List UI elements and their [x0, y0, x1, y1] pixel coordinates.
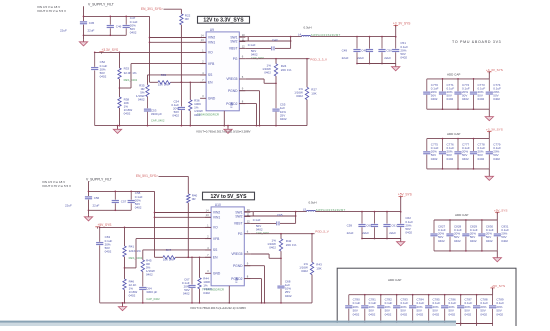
capacitor C782 0.1uF	[377, 295, 392, 326]
capacitor C55 1uF	[272, 83, 287, 125]
wire PGND	[244, 266, 264, 303]
svg-text:V_SUPPLY_FILT: V_SUPPLY_FILT	[86, 177, 112, 181]
svg-text:0.5uH: 0.5uH	[309, 200, 317, 204]
svg-text:GND: GND	[213, 272, 221, 276]
svg-text:3300 pF: 3300 pF	[151, 112, 162, 116]
wire bank top rail	[427, 138, 490, 140]
net +5V_SYS	[398, 193, 412, 213]
capacitor C789 0.1uF	[489, 295, 504, 326]
wire bank4 bottom rail	[349, 323, 493, 325]
wire EN pulldown	[181, 25, 183, 83]
svg-text:12V to 3.3V_SYS: 12V to 3.3V_SYS	[203, 18, 244, 24]
net EN_3V1_SYS	[141, 7, 181, 14]
svg-text:0402: 0402	[301, 269, 308, 273]
inductor L5	[303, 200, 346, 212]
svg-text:15K DNP: 15K DNP	[158, 83, 170, 87]
svg-text:C56: C56	[94, 196, 100, 200]
capacitor C62 0.1uF	[397, 212, 413, 239]
ground rail	[100, 302, 312, 304]
svg-text:L4: L4	[298, 33, 302, 37]
capacitor C43 bootstrap	[245, 37, 290, 51]
capacitor C53	[144, 97, 165, 126]
svg-text:SW1: SW1	[230, 35, 237, 39]
svg-text:V_SUPPLY_FILT: V_SUPPLY_FILT	[88, 2, 114, 6]
capacitor C61 22uF	[383, 212, 397, 240]
svg-text:0402: 0402	[135, 205, 142, 209]
svg-text:22uF: 22uF	[362, 231, 369, 235]
svg-text:C46: C46	[116, 25, 122, 29]
wire VFB	[125, 239, 212, 268]
capacitor C777 0.1uF	[454, 139, 469, 169]
svg-text:0402: 0402	[194, 113, 201, 117]
svg-text:L5: L5	[303, 208, 307, 212]
wire PGND	[239, 91, 259, 126]
svg-text:VIN2: VIN2	[208, 36, 215, 40]
svg-text:EN_5V1_SYS>: EN_5V1_SYS>	[136, 174, 158, 178]
wire VOUT rail	[290, 36, 396, 42]
wire bank bottom rail	[427, 168, 490, 170]
capacitor C829 0.1uF	[462, 220, 477, 251]
resistor R38	[118, 97, 133, 126]
capacitor C781 0.1uF	[361, 295, 376, 326]
svg-text:0402: 0402	[172, 114, 179, 118]
capacitor C49 22uF	[342, 37, 361, 65]
capacitor C786 0.1uF	[441, 295, 456, 326]
svg-text:0402: 0402	[405, 230, 412, 234]
svg-text:C65: C65	[277, 213, 283, 217]
label bootstrap values	[248, 43, 265, 60]
capacitor C48 22uF	[357, 37, 373, 65]
svg-text:PGD_5_V: PGD_5_V	[315, 230, 329, 234]
svg-text:R41: R41	[129, 244, 135, 248]
svg-text:+5V_SYS: +5V_SYS	[492, 284, 506, 288]
ground bank	[493, 251, 501, 262]
title box	[203, 192, 255, 200]
wire SS	[148, 75, 207, 85]
svg-text:PGD_3_3_V: PGD_3_3_V	[310, 57, 327, 61]
svg-text:SW2: SW2	[230, 40, 237, 44]
net +5V_SYS	[95, 223, 211, 228]
title box	[198, 16, 250, 23]
wire SS	[143, 250, 211, 260]
svg-text:SW2: SW2	[235, 215, 242, 219]
wire VIN2	[154, 212, 211, 214]
svg-text:C48: C48	[361, 49, 367, 53]
svg-text:VOUT=0.765x0.3017x(1+32.0/10)=: VOUT=0.765x0.3017x(1+32.0/10)=3.288V	[196, 129, 250, 133]
svg-text:0402: 0402	[493, 97, 500, 101]
svg-text:C61: C61	[391, 224, 397, 228]
svg-text:0.1uF: 0.1uF	[253, 218, 261, 222]
wire SW	[244, 212, 306, 216]
resistor R46	[123, 279, 138, 303]
svg-text:121K 1%: 121K 1%	[129, 249, 142, 253]
svg-text:R47: R47	[166, 248, 172, 252]
svg-text:22uF: 22uF	[60, 29, 67, 33]
ground rail	[95, 125, 307, 127]
note ADD CAP bank4	[388, 278, 401, 282]
svg-text:EN_3V1_SYS>: EN_3V1_SYS>	[141, 7, 163, 11]
svg-text:0402: 0402	[433, 312, 440, 316]
resistor R44 100K	[198, 257, 212, 303]
net PGD_5_V	[250, 230, 328, 235]
wire GND pin	[228, 286, 230, 304]
svg-text:14: 14	[206, 208, 209, 212]
svg-text:SW1: SW1	[235, 210, 242, 214]
wire VIN1	[149, 41, 206, 43]
capacitor C58 0.1uF	[128, 191, 143, 211]
window edge bar	[0, 321, 456, 326]
svg-text:0402: 0402	[264, 71, 271, 75]
capacitor C52 0.1uF	[91, 52, 107, 125]
note ADD CAP	[447, 72, 460, 76]
svg-text:0402: 0402	[496, 312, 503, 316]
svg-text:0402: 0402	[251, 53, 258, 57]
op-amp regulator U9	[200, 28, 245, 111]
resistor R35 0R	[136, 83, 149, 101]
capacitor C56 22uF	[65, 196, 100, 208]
svg-text:22uF: 22uF	[342, 56, 349, 60]
svg-text:TO PMU &BOARD 3V3: TO PMU &BOARD 3V3	[452, 40, 501, 44]
capacitor C60 22uF	[362, 212, 378, 240]
ground output	[392, 64, 400, 71]
svg-text:32.0K 1%: 32.0K 1%	[124, 71, 137, 75]
capacitor C783 0.1uF	[393, 295, 408, 326]
capacitor C47 0.1uF	[123, 16, 138, 36]
svg-text:U10: U10	[215, 203, 221, 207]
svg-text:ADD CAP: ADD CAP	[388, 278, 401, 282]
wire VREG5	[245, 79, 277, 84]
net +3_3V_SYS	[486, 68, 503, 79]
wire bank top rail	[434, 219, 497, 221]
resistor R33	[118, 52, 138, 82]
svg-text:VBST: VBST	[234, 222, 243, 226]
svg-text:0402: 0402	[269, 246, 276, 250]
svg-text:0402: 0402	[462, 97, 469, 101]
capacitor C784 0.1uF	[409, 295, 424, 326]
svg-text:0402: 0402	[431, 97, 438, 101]
svg-text:0402: 0402	[478, 97, 485, 101]
svg-text:0402: 0402	[203, 291, 210, 295]
net PGD_3_3_V	[245, 57, 327, 61]
net V_SUPPLY_FILT	[86, 177, 155, 214]
svg-text:22uF: 22uF	[347, 231, 354, 235]
svg-text:0402: 0402	[385, 312, 392, 316]
svg-text:VREG5: VREG5	[231, 252, 242, 256]
svg-text:0402: 0402	[369, 312, 376, 316]
svg-text:+3_3V_SYS: +3_3V_SYS	[486, 68, 503, 72]
svg-text:10K DNP: 10K DNP	[163, 258, 175, 262]
capacitor C828 0.1uF	[446, 220, 461, 251]
capacitor C778 0.1uF	[470, 139, 485, 169]
wire bank top rail	[427, 78, 490, 80]
wire VIN1	[154, 216, 211, 218]
svg-text:0402: 0402	[138, 98, 145, 102]
svg-text:PG: PG	[233, 57, 238, 61]
capacitor C827 0.1uF	[430, 220, 445, 251]
svg-text:VOUT=0.765x0.3017x(1+121/22.1): VOUT=0.765x0.3017x(1+121/22.1)=4.995V	[190, 306, 246, 310]
svg-text:0402: 0402	[447, 97, 454, 101]
part number TPS40305DRCR	[202, 287, 224, 291]
svg-text:VIN1: VIN1	[208, 41, 215, 45]
wire bank4 top rail	[349, 294, 493, 296]
note ADD CAP	[447, 132, 460, 136]
resistor R40 0R	[187, 193, 198, 202]
svg-text:0402: 0402	[296, 94, 303, 98]
ground mid	[224, 125, 232, 134]
svg-text:12: 12	[242, 44, 245, 48]
svg-text:22uF: 22uF	[65, 204, 72, 208]
svg-text:C59: C59	[347, 224, 353, 228]
svg-text:VO: VO	[208, 51, 213, 55]
capacitor C772 0.1uF	[454, 79, 469, 109]
svg-text:R39: R39	[161, 73, 167, 77]
capacitor C771 0.1uF	[439, 79, 454, 109]
wire input rail down	[89, 191, 155, 257]
wire SW	[239, 37, 301, 41]
net +5V_SYS	[494, 208, 508, 220]
note input voltage range	[42, 180, 71, 188]
svg-text:20K 1%: 20K 1%	[286, 243, 297, 247]
note vout formula	[196, 129, 250, 133]
svg-text:0402: 0402	[486, 239, 493, 243]
svg-text:22uF: 22uF	[357, 56, 364, 60]
op-amp regulator U10	[205, 203, 250, 286]
inductor L4	[298, 25, 341, 37]
wire EN	[150, 81, 207, 83]
resistor R42 20K	[267, 234, 296, 259]
capacitor C59 22uF	[347, 212, 366, 240]
svg-text:VBST: VBST	[229, 47, 238, 51]
svg-text:VIN2: VIN2	[213, 211, 220, 215]
ground bank	[485, 169, 493, 181]
capacitor C776 0.1uF	[439, 139, 454, 169]
svg-text:0402: 0402	[462, 157, 469, 161]
net V_SUPPLY_FILT	[83, 2, 150, 39]
svg-text:VIN1: VIN1	[213, 216, 220, 220]
note input voltage range	[37, 5, 66, 13]
label bootstrap values	[253, 218, 270, 235]
svg-text:CAP_0402: CAP_0402	[146, 297, 160, 301]
svg-text:GND: GND	[208, 97, 216, 101]
ground left	[118, 302, 126, 311]
svg-text:ADD CAP: ADD CAP	[447, 132, 460, 136]
svg-text:VOUT 0.76 V to 5.5 V: VOUT 0.76 V to 5.5 V	[42, 184, 71, 188]
capacitor C773 0.1uF	[470, 79, 485, 109]
capacitor C780 0.1uF	[345, 295, 360, 326]
svg-text:0402: 0402	[130, 30, 137, 34]
svg-text:CAP_0402: CAP_0402	[251, 56, 265, 60]
svg-text:0.3uH: 0.3uH	[304, 25, 312, 29]
resistor R43 10K	[299, 234, 322, 303]
wire feedback mid	[119, 79, 121, 97]
ground input	[79, 39, 87, 46]
svg-text:CAP_0402: CAP_0402	[256, 231, 270, 235]
wire bank bottom rail	[434, 250, 497, 252]
svg-text:ADD CAP: ADD CAP	[447, 72, 460, 76]
svg-text:0.1uF: 0.1uF	[248, 43, 256, 47]
resistor R27 10K	[294, 59, 317, 126]
wire VOUT rail	[295, 211, 401, 217]
resistor R22 0R	[180, 14, 191, 25]
resistor R41	[123, 227, 143, 260]
capacitor C54 0.1uF	[171, 82, 185, 125]
wire EN	[155, 256, 212, 258]
wire EN pulldown	[187, 203, 189, 258]
wire GND pin	[223, 111, 225, 127]
svg-text:22uF: 22uF	[384, 56, 391, 60]
svg-text:C45: C45	[89, 21, 95, 25]
box ADD CAP bank	[337, 268, 516, 331]
capacitor C46 22uF	[107, 16, 122, 37]
svg-text:0402: 0402	[480, 312, 487, 316]
svg-text:C50: C50	[386, 49, 392, 53]
svg-text:0402: 0402	[454, 239, 461, 243]
resistor R39 DNP	[158, 73, 171, 86]
wire PGND2	[244, 279, 261, 303]
wire output ground rail	[357, 63, 396, 65]
svg-text:0402: 0402	[146, 273, 153, 277]
note TO PMU	[452, 40, 501, 44]
svg-text:FSW: FSW	[235, 277, 239, 283]
resistor R47 DNP	[163, 248, 176, 261]
svg-text:0402: 0402	[285, 294, 292, 298]
svg-text:12: 12	[247, 219, 250, 223]
wire VFB	[120, 64, 207, 88]
svg-text:0402: 0402	[478, 157, 485, 161]
svg-text:PGND: PGND	[228, 89, 238, 93]
wire VIN2	[149, 37, 206, 39]
svg-text:0402: 0402	[447, 157, 454, 161]
capacitor C67 0.1uF	[182, 257, 196, 303]
svg-text:+3_3V_SYS: +3_3V_SYS	[486, 128, 503, 132]
svg-text:ADD CAP: ADD CAP	[455, 213, 468, 217]
capacitor C775 0.1uF	[423, 139, 438, 169]
svg-text:0402: 0402	[400, 55, 407, 59]
svg-text:13: 13	[206, 213, 209, 217]
ground left	[113, 125, 121, 134]
capacitor C65 bootstrap	[250, 212, 295, 226]
svg-text:0402: 0402	[449, 312, 456, 316]
capacitor C50 22uF	[378, 37, 392, 65]
capacitor C788 0.1uF	[473, 295, 488, 326]
note ADD CAP	[455, 213, 468, 217]
net +5V_SYS bank4	[490, 284, 505, 295]
svg-text:3300 pF: 3300 pF	[146, 290, 157, 294]
part number TPS40305DRCR	[197, 112, 219, 116]
svg-text:0402: 0402	[280, 117, 287, 121]
svg-text:C49: C49	[342, 49, 348, 53]
capacitor C63 0.1uF	[96, 227, 112, 303]
svg-text:VOUT 0.76 V to 5.5 V: VOUT 0.76 V to 5.5 V	[37, 9, 66, 13]
wire VREG5	[250, 254, 282, 259]
note vout formula	[190, 306, 246, 310]
ground bank	[485, 109, 493, 121]
svg-text:+5V_SYS: +5V_SYS	[398, 193, 412, 197]
svg-text:CAP_0402: CAP_0402	[151, 119, 165, 123]
svg-text:U9: U9	[210, 28, 214, 32]
svg-text:C60: C60	[366, 224, 372, 228]
svg-text:0402: 0402	[256, 228, 263, 232]
svg-text:0402: 0402	[431, 157, 438, 161]
svg-text:R33: R33	[124, 66, 130, 70]
svg-text:0402: 0402	[183, 292, 190, 296]
svg-text:0402: 0402	[417, 312, 424, 316]
svg-text:0402: 0402	[129, 294, 136, 298]
svg-text:VFB: VFB	[213, 237, 220, 241]
capacitor C770 0.1uF	[423, 79, 438, 109]
svg-text:0402: 0402	[100, 74, 107, 78]
svg-text:0402: 0402	[401, 312, 408, 316]
svg-text:0402: 0402	[105, 249, 112, 253]
resistor R45 0R	[141, 258, 155, 276]
net +3_3V_SYS	[393, 21, 410, 37]
svg-text:EN: EN	[208, 81, 213, 85]
svg-text:22uF: 22uF	[93, 204, 100, 208]
svg-text:22uF: 22uF	[389, 231, 396, 235]
capacitor C45 22uF	[60, 21, 95, 33]
capacitor C68 1uF	[277, 258, 292, 303]
capacitor C831 0.1uF	[494, 220, 509, 251]
capacitor C785 0.1uF	[425, 295, 440, 326]
svg-text:0402: 0402	[470, 239, 477, 243]
svg-text:10K: 10K	[316, 267, 321, 271]
resistor R36 100K	[189, 82, 203, 125]
svg-text:C43: C43	[272, 38, 278, 42]
svg-text:0402: 0402	[124, 112, 131, 116]
svg-text:C57: C57	[121, 200, 127, 204]
capacitor C830 0.1uF	[478, 220, 493, 251]
svg-text:20K 1%: 20K 1%	[281, 68, 292, 72]
svg-text:PG: PG	[238, 232, 243, 236]
svg-text:PGND: PGND	[233, 264, 243, 268]
svg-text:0402: 0402	[493, 157, 500, 161]
svg-text:13: 13	[201, 38, 204, 42]
svg-text:VREG5: VREG5	[226, 77, 237, 81]
svg-text:+5V_SYS: +5V_SYS	[494, 208, 508, 212]
wire output ground rail	[362, 238, 401, 240]
net +3.3V_SYS	[94, 48, 206, 53]
capacitor C787 0.1uF	[457, 295, 472, 326]
svg-text:10K: 10K	[311, 92, 316, 96]
svg-text:0402: 0402	[438, 239, 445, 243]
capacitor C774 0.1uF	[486, 79, 501, 109]
wire feedback mid	[124, 257, 126, 279]
svg-text:FSW: FSW	[230, 102, 234, 108]
svg-text:0402: 0402	[501, 239, 508, 243]
wire bank bottom rail	[427, 108, 490, 110]
svg-text:VO: VO	[213, 226, 218, 230]
svg-text:0402: 0402	[353, 312, 360, 316]
svg-text:0402: 0402	[465, 312, 472, 316]
svg-text:+3.3V_SYS: +3.3V_SYS	[102, 48, 119, 52]
net +3_3V_SYS	[486, 128, 503, 139]
resistor R24 20K	[262, 59, 291, 84]
svg-text:12V to 5V_SYS: 12V to 5V_SYS	[211, 194, 248, 200]
svg-text:+3_3V_SYS: +3_3V_SYS	[393, 21, 410, 25]
ground output	[397, 239, 405, 246]
svg-text:VFB: VFB	[208, 62, 215, 66]
svg-text:22uF: 22uF	[88, 29, 95, 33]
svg-text:EN: EN	[213, 256, 218, 260]
net EN_5V1_SYS	[136, 174, 188, 194]
capacitor C779 0.1uF	[486, 139, 501, 169]
capacitor C57 22uF	[112, 191, 127, 212]
capacitor C64	[139, 272, 160, 303]
wire PGND2	[239, 104, 256, 126]
wire input rail down	[84, 16, 150, 82]
svg-text:14: 14	[201, 33, 204, 37]
capacitor C51 0.1uF	[392, 37, 408, 64]
